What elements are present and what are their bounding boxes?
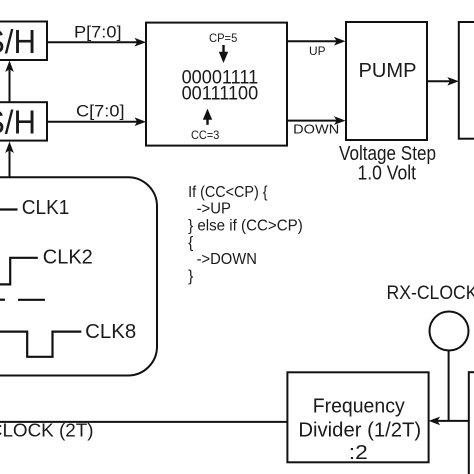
svg-text::2: :2	[349, 442, 368, 464]
RX-CLOCK probe circle	[430, 312, 469, 351]
wire DOWN from comparator to pump	[287, 116, 346, 136]
svg-text:S/H: S/H	[0, 103, 36, 140]
ellipsis dashes between CLK2 and CLK8	[0, 299, 45, 301]
CLK8 waveform	[0, 321, 136, 357]
svg-text:CLK1: CLK1	[22, 197, 70, 219]
svg-text:}: }	[188, 268, 193, 285]
svg-text:CC=3: CC=3	[191, 128, 220, 142]
svg-text:TX-CLOCK (2T): TX-CLOCK (2T)	[0, 420, 94, 440]
svg-text:C[7:0]: C[7:0]	[76, 101, 125, 120]
svg-text:RX-CLOCK: RX-CLOCK	[387, 283, 474, 304]
svg-text:Divider (1/2T): Divider (1/2T)	[298, 420, 421, 442]
svg-text:CP=5: CP=5	[209, 31, 238, 45]
wire arrow from U2 top to U1 bottom (clock chain)	[5, 61, 14, 103]
arrow up from CC	[206, 117, 208, 125]
svg-text:UP: UP	[309, 44, 326, 58]
partial box at top right (VCO)	[459, 22, 474, 139]
svg-text:1.0 Volt: 1.0 Volt	[358, 162, 417, 184]
comparator box U3 (CP/CC compare)	[146, 23, 287, 146]
wire P[7:0] from U1 to comparator	[47, 22, 146, 46]
wire from pump to right edge box	[427, 77, 459, 86]
svg-text:If (CC<CP) {: If (CC<CP) {	[188, 184, 268, 201]
svg-text:P[7:0]: P[7:0]	[74, 22, 122, 41]
svg-text:CLK2: CLK2	[43, 247, 93, 269]
svg-text:00111100: 00111100	[182, 84, 259, 105]
arrow down from CP	[222, 45, 224, 53]
CLK2 waveform	[0, 247, 93, 285]
svg-text:Frequency: Frequency	[313, 395, 405, 417]
wire arrow from waveform box top to U2 bottom	[5, 142, 14, 178]
svg-text:S/H: S/H	[0, 23, 36, 60]
frequency divider box U5	[287, 372, 428, 464]
wire C[7:0] from U2 to comparator	[47, 101, 146, 126]
S/H block U2 (bottom, C sample/hold)	[0, 102, 47, 140]
svg-text:{: {	[188, 234, 193, 251]
svg-text:} else if (CC>CP): } else if (CC>CP)	[188, 218, 303, 235]
svg-text:->DOWN: ->DOWN	[197, 251, 257, 268]
caption Voltage Step 1.0 Volt	[339, 143, 436, 185]
wire TX-CLOCK (2T) from frequency divider to left edge	[0, 420, 287, 440]
waveform legend box (rounded)	[0, 177, 157, 375]
pseudo-code text block	[188, 184, 303, 285]
pump box U4	[346, 22, 427, 140]
CLK1 waveform tick	[0, 197, 69, 219]
wire from circle down to RX line	[448, 351, 450, 421]
svg-text:PUMP: PUMP	[359, 60, 417, 82]
svg-text:DOWN: DOWN	[293, 123, 339, 137]
svg-text:->UP: ->UP	[197, 201, 231, 218]
svg-text:CLK8: CLK8	[85, 321, 136, 343]
wire RX-CLOCK into frequency divider (arrow left)	[429, 417, 469, 426]
label RX-CLOCK	[387, 283, 474, 304]
wire UP from comparator to pump	[287, 37, 346, 58]
S/H block U1 (top, P sample/hold)	[0, 22, 47, 61]
partial box at bottom right (RX clock source)	[469, 372, 474, 474]
